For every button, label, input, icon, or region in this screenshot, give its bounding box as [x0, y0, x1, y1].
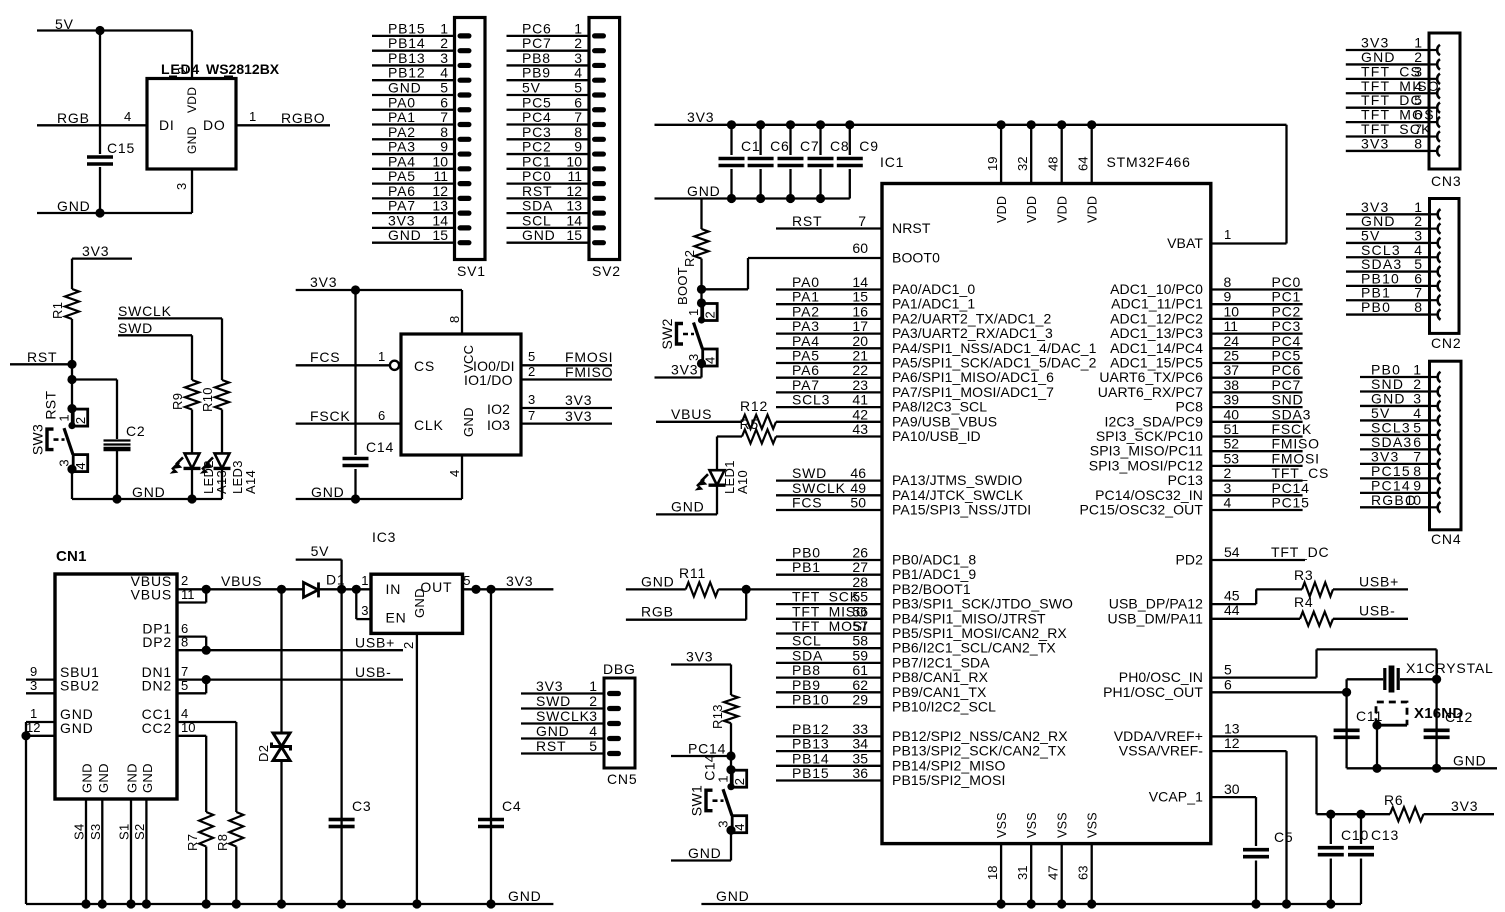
net 3V3 R13 pullup — [686, 649, 713, 665]
svg-text:C6: C6 — [770, 138, 790, 154]
wire PA5 pin 21 — [776, 362, 882, 364]
wire LED2 to GND — [191, 468, 193, 499]
svg-text:2: 2 — [175, 67, 190, 74]
svg-text:SDA3: SDA3 — [1272, 406, 1312, 422]
junction BOOT — [697, 285, 706, 294]
svg-text:8: 8 — [181, 635, 189, 650]
pad SV1 pin 5 — [458, 92, 472, 97]
svg-text:PC5: PC5 — [522, 94, 552, 110]
svg-text:VBAT: VBAT — [1167, 235, 1203, 251]
wire FCS pin 50 — [776, 509, 882, 511]
wire CN4 pin 2 SND — [1360, 390, 1430, 392]
svg-text:SCL: SCL — [522, 212, 552, 228]
wire PC14 pin 3 — [1211, 494, 1303, 496]
svg-text:PC14: PC14 — [688, 741, 726, 757]
pad SV1 pin 7 — [458, 122, 472, 127]
svg-text:14: 14 — [566, 212, 582, 228]
svg-text:1: 1 — [716, 775, 731, 782]
svg-text:PC3: PC3 — [1272, 318, 1302, 334]
wire FSCK to CLK — [296, 422, 401, 424]
net 3V3 label rail — [687, 109, 714, 125]
wire SV2 pin 11 net PC0 — [507, 182, 590, 184]
junction S1/GND — [126, 899, 135, 908]
svg-text:PB15: PB15 — [388, 20, 425, 36]
wire CN2 pin 1 3V3 — [1346, 213, 1430, 215]
svg-text:62: 62 — [852, 677, 868, 693]
svg-text:8: 8 — [1414, 299, 1422, 315]
pad CN5 pin 1 — [607, 691, 621, 696]
pin CN3 1 — [1430, 45, 1440, 55]
svg-text:12: 12 — [1224, 735, 1240, 751]
wire SW1 to GND — [730, 830, 732, 860]
svg-text:5V: 5V — [311, 543, 330, 559]
svg-text:DP2: DP2 — [142, 634, 172, 650]
svg-text:PH0/OSC_IN: PH0/OSC_IN — [1119, 669, 1203, 685]
svg-text:2: 2 — [181, 573, 189, 588]
connector CN1 body — [55, 574, 177, 799]
svg-text:PA2/UART2_TX/ADC1_2: PA2/UART2_TX/ADC1_2 — [892, 310, 1051, 326]
LED LED2 — [172, 453, 201, 472]
svg-text:2: 2 — [574, 35, 582, 51]
svg-text:3V3: 3V3 — [686, 649, 713, 665]
svg-text:ADC1_12/PC2: ADC1_12/PC2 — [1110, 310, 1203, 326]
svg-text:6: 6 — [574, 94, 582, 110]
svg-text:8: 8 — [1224, 274, 1232, 290]
svg-text:VSS: VSS — [1056, 812, 1070, 838]
pin CN3 4 — [1430, 88, 1440, 98]
switch SW2 — [697, 298, 706, 307]
svg-text:S2: S2 — [132, 823, 147, 840]
svg-text:PB4/SPI1_MISO/JTRST: PB4/SPI1_MISO/JTRST — [892, 610, 1046, 626]
resistor R3 USB+ — [1256, 588, 1302, 590]
svg-text:12: 12 — [432, 183, 448, 199]
wire CN4 pin 7 3V3 — [1360, 463, 1430, 465]
pad SV2 pin 13 — [592, 211, 606, 216]
wire GND — [37, 212, 192, 214]
svg-text:3V3: 3V3 — [671, 362, 698, 378]
wire CN3 pin 5 TFT_DC — [1346, 107, 1429, 109]
wire 3V3 SW2 — [655, 376, 702, 378]
pin CN2 4 — [1431, 252, 1441, 262]
wire PA0 pin 14 — [776, 288, 882, 290]
svg-text:USB-: USB- — [355, 664, 392, 680]
svg-text:PA10/USB_ID: PA10/USB_ID — [892, 428, 981, 444]
wire PC3 pin 11 — [1211, 332, 1303, 334]
svg-text:3: 3 — [30, 678, 38, 693]
svg-text:39: 39 — [1224, 392, 1240, 408]
wire CN2 pin 5 SDA3 — [1346, 270, 1430, 272]
wire SV2 pin 10 net PC1 — [507, 168, 590, 170]
net GND label flash — [311, 484, 345, 500]
wire SV2 pin 5 net 5V — [507, 94, 590, 96]
svg-text:GND: GND — [140, 763, 155, 793]
wire crystal GND rail — [1347, 767, 1497, 769]
svg-text:3: 3 — [440, 50, 448, 66]
svg-text:GND: GND — [522, 227, 556, 243]
wire D1 to IC3 — [319, 588, 372, 590]
wire GND rail left — [72, 498, 222, 500]
pad SV1 pin 12 — [458, 196, 472, 201]
svg-text:PB1/ADC1_9: PB1/ADC1_9 — [892, 566, 976, 582]
svg-text:10: 10 — [432, 153, 448, 169]
svg-text:R7: R7 — [185, 834, 200, 851]
svg-text:PA6/SPI1_MISO/ADC1_6: PA6/SPI1_MISO/ADC1_6 — [892, 369, 1054, 385]
svg-text:C8: C8 — [830, 138, 850, 154]
svg-text:5: 5 — [589, 738, 597, 754]
svg-text:SWD: SWD — [792, 465, 827, 481]
svg-text:5: 5 — [528, 349, 536, 364]
capacitor C6 — [748, 157, 774, 161]
svg-text:C4: C4 — [502, 798, 522, 814]
net USB+ label — [355, 635, 395, 651]
svg-text:SV2: SV2 — [592, 263, 621, 279]
svg-text:3: 3 — [361, 603, 369, 618]
svg-text:USB_DP/PA12: USB_DP/PA12 — [1109, 596, 1203, 612]
svg-text:SPI3_SCK/PC10: SPI3_SCK/PC10 — [1096, 428, 1203, 444]
wire CN1 shield S3 — [101, 799, 103, 904]
pin CN4 7 — [1431, 459, 1441, 469]
pin CN2 3 — [1431, 238, 1441, 248]
wire CN2 pin 4 SCL3 — [1346, 256, 1430, 258]
svg-text:PC0: PC0 — [1272, 274, 1302, 290]
pad SV1 pin 9 — [458, 151, 472, 156]
wire IO1 FMISO — [521, 378, 612, 380]
wire PC2 pin 10 — [1211, 318, 1303, 320]
svg-text:56: 56 — [852, 603, 868, 619]
wire NRST / RST — [776, 227, 882, 229]
svg-text:NRST: NRST — [892, 220, 931, 236]
svg-text:35: 35 — [852, 750, 868, 766]
net GND label SW1 — [688, 845, 722, 861]
wire PH1 OSC_OUT pin 6 — [1211, 691, 1347, 693]
svg-text:FMOSI: FMOSI — [1272, 450, 1320, 466]
wire 5V — [37, 29, 192, 31]
svg-text:11: 11 — [567, 168, 582, 184]
flash IC body — [401, 334, 521, 455]
wire CN4 pin 8 PC15 — [1360, 477, 1430, 479]
junction PH1 — [1342, 688, 1351, 697]
svg-text:SWCLK: SWCLK — [792, 480, 846, 496]
resistor R4 USB- — [1300, 612, 1333, 626]
svg-text:2: 2 — [528, 364, 536, 379]
svg-text:34: 34 — [852, 736, 868, 752]
svg-text:13: 13 — [1224, 720, 1240, 736]
wire TFT_CS pin 2 — [1211, 479, 1303, 481]
svg-text:13: 13 — [432, 198, 448, 214]
svg-text:VBUS: VBUS — [131, 587, 172, 603]
svg-text:48: 48 — [1046, 157, 1061, 171]
svg-text:VCAP_1: VCAP_1 — [1149, 789, 1203, 805]
svg-text:14: 14 — [852, 274, 868, 290]
wire pin3 GND stub — [191, 169, 193, 213]
junction cap GND — [756, 194, 765, 203]
capacitor C3 — [329, 818, 355, 829]
pin CN3 6 — [1430, 117, 1440, 127]
wire USB_DP pin 45 jog — [1211, 603, 1256, 605]
capacitor C15 — [87, 155, 113, 159]
svg-text:5: 5 — [181, 678, 189, 693]
svg-text:R6: R6 — [1384, 792, 1404, 808]
capacitor C5 — [1243, 848, 1269, 852]
svg-text:VSS: VSS — [1086, 812, 1100, 838]
wire CN3 pin 7 TFT_SCK — [1346, 135, 1429, 137]
wire CN2 pin 6 PB10 — [1346, 285, 1430, 287]
pad CN5 pin 4 — [607, 736, 621, 741]
wire RGB to DI — [37, 124, 147, 126]
resistor R7 — [199, 812, 213, 847]
svg-text:PC6: PC6 — [522, 20, 552, 36]
wire VDD stub pin 19 — [1000, 125, 1002, 184]
wire R1 to RST node — [71, 319, 73, 409]
pad SV1 pin 2 — [458, 48, 472, 53]
svg-text:GND: GND — [412, 588, 427, 618]
svg-text:FCS: FCS — [310, 349, 340, 365]
wire SV1 pin 1 net PB15 — [372, 35, 455, 37]
capacitor C1 — [719, 157, 745, 161]
svg-text:C14: C14 — [702, 754, 718, 781]
diode D1 — [304, 582, 319, 597]
wire C14 bottom — [354, 469, 356, 499]
svg-text:VBUS: VBUS — [671, 406, 712, 422]
svg-text:I2C3_SDA/PC9: I2C3_SDA/PC9 — [1105, 413, 1204, 429]
svg-text:18: 18 — [985, 866, 1000, 880]
svg-text:CC2: CC2 — [142, 720, 172, 736]
wire RST — [10, 363, 72, 365]
svg-text:RGB: RGB — [57, 110, 90, 126]
svg-text:RST: RST — [43, 391, 59, 420]
svg-text:DBG: DBG — [603, 661, 636, 677]
svg-text:VSS: VSS — [995, 812, 1009, 838]
wire C3 vertical — [340, 589, 342, 904]
inversion bubble pin1 — [390, 361, 399, 370]
svg-text:17: 17 — [852, 318, 868, 334]
resistor R13 — [724, 695, 738, 723]
svg-text:PB14: PB14 — [792, 750, 829, 766]
svg-text:C12: C12 — [1445, 709, 1473, 725]
svg-text:S4: S4 — [72, 823, 87, 840]
svg-text:14: 14 — [432, 212, 448, 228]
svg-text:16: 16 — [852, 303, 868, 319]
net PC14 label — [688, 741, 726, 757]
svg-text:GND: GND — [671, 499, 705, 515]
wire SWCLK — [118, 317, 222, 319]
svg-text:37: 37 — [1224, 362, 1240, 378]
wire SND pin 39 — [1211, 406, 1303, 408]
svg-text:GND: GND — [688, 845, 722, 861]
svg-text:3V3: 3V3 — [536, 678, 563, 694]
connector CN2 body — [1430, 199, 1460, 334]
pin CN4 5 — [1431, 430, 1441, 440]
svg-text:4: 4 — [440, 65, 448, 81]
svg-text:R1: R1 — [50, 302, 65, 319]
wire C8 bottom — [819, 169, 821, 199]
svg-text:PA0/ADC1_0: PA0/ADC1_0 — [892, 281, 975, 297]
svg-text:BOOT0: BOOT0 — [892, 250, 940, 266]
svg-text:64: 64 — [1076, 157, 1091, 171]
wire VSSA pin 12 — [1211, 750, 1287, 752]
svg-text:PB1: PB1 — [792, 559, 821, 575]
pad SV1 pin 6 — [458, 107, 472, 112]
pad SV2 pin 10 — [592, 166, 606, 171]
capacitor C2 polarized — [104, 439, 131, 441]
wire SV1 pin 4 net PB12 — [372, 79, 455, 81]
wire PB2 GND via R11 pin 28 — [626, 588, 686, 590]
junction RGB/PB2 — [742, 585, 751, 594]
svg-text:58: 58 — [852, 633, 868, 649]
svg-text:RST: RST — [792, 213, 822, 229]
svg-text:PC1: PC1 — [1272, 289, 1302, 305]
svg-text:PC2: PC2 — [1272, 303, 1302, 319]
svg-text:2: 2 — [732, 778, 747, 785]
net 3V3 label SW2 — [671, 362, 698, 378]
svg-text:GND: GND — [641, 573, 675, 589]
svg-text:57: 57 — [852, 618, 868, 634]
wire PA1 pin 15 — [776, 303, 882, 305]
svg-text:PA1: PA1 — [792, 289, 820, 305]
svg-text:PB12: PB12 — [388, 65, 425, 81]
svg-text:20: 20 — [852, 333, 868, 349]
svg-text:23: 23 — [852, 377, 868, 393]
svg-text:RST: RST — [27, 349, 57, 365]
wire TFT_DC pin 54 — [1211, 559, 1305, 561]
wire VDD stub pin 64 — [1091, 125, 1093, 184]
pad SV1 pin 8 — [458, 137, 472, 142]
svg-text:61: 61 — [852, 662, 868, 678]
wire SCL pin 58 — [776, 647, 882, 649]
svg-text:4: 4 — [124, 109, 132, 124]
svg-text:PA8/I2C3_SCL: PA8/I2C3_SCL — [892, 399, 987, 415]
crystal X1 — [1385, 666, 1398, 693]
svg-text:VDDA/VREF+: VDDA/VREF+ — [1114, 728, 1203, 744]
pin CN4 4 — [1431, 415, 1441, 425]
wire CN1 GND pin1 — [26, 721, 55, 723]
wire GND SW1 — [671, 859, 731, 861]
wire pin4 GND stub — [461, 455, 463, 499]
svg-text:SDA: SDA — [792, 647, 823, 663]
svg-text:SW2: SW2 — [659, 318, 675, 349]
junction GND/C15 — [95, 208, 104, 217]
pin CN4 6 — [1431, 444, 1441, 454]
svg-text:10: 10 — [181, 720, 195, 735]
svg-text:VDD: VDD — [995, 196, 1009, 223]
op-amp U? WS2812 LED4 body — [147, 79, 236, 170]
wire R8 to GND — [235, 847, 237, 905]
wire SWD — [118, 334, 192, 336]
wire LED1 branch — [716, 437, 718, 471]
pad SV2 pin 14 — [592, 225, 606, 230]
svg-text:3V3: 3V3 — [82, 243, 109, 259]
wire CN3 pin 1 3V3 — [1346, 49, 1429, 51]
wire FMOSI pin 53 — [1211, 465, 1303, 467]
wire CN3 pin 3 TFT_CS — [1346, 78, 1429, 80]
svg-text:6: 6 — [1224, 676, 1232, 692]
wire VDDA pin 13 — [1211, 735, 1317, 737]
svg-text:SWCLK: SWCLK — [118, 303, 172, 319]
svg-text:SCL: SCL — [792, 633, 822, 649]
wire CN5 pin 4 GND — [521, 737, 604, 739]
diode D2 TVS — [277, 585, 286, 594]
svg-text:3V3: 3V3 — [565, 392, 592, 408]
pin CN2 1 — [1431, 209, 1441, 219]
wire C15 bottom — [99, 167, 101, 213]
wire CN4 pin 5 SCL3 — [1360, 434, 1430, 436]
wire VSS stub pin 18 — [1000, 844, 1002, 904]
svg-text:VSS: VSS — [1025, 812, 1039, 838]
pad SV2 pin 2 — [592, 48, 606, 53]
svg-text:54: 54 — [1224, 544, 1240, 560]
wire C14 vertical — [354, 290, 356, 455]
svg-text:1: 1 — [378, 349, 386, 364]
svg-text:1: 1 — [249, 109, 257, 124]
pad SV2 pin 8 — [592, 137, 606, 142]
pin CN4 8 — [1431, 473, 1441, 483]
svg-text:ADC1_13/PC3: ADC1_13/PC3 — [1110, 325, 1203, 341]
svg-text:6: 6 — [378, 408, 386, 423]
wire R10 to LED3 — [221, 410, 223, 454]
svg-text:24: 24 — [1224, 333, 1240, 349]
wire CN5 pin 5 RST — [521, 752, 604, 754]
wire PC4 pin 24 — [1211, 347, 1303, 349]
junction GND pin12 — [21, 731, 30, 740]
svg-text:VDD: VDD — [1056, 196, 1070, 223]
wire FSCK pin 51 — [1211, 435, 1303, 437]
wire SV1 pin 12 net PA6 — [372, 197, 455, 199]
wire SV2 pin 15 net GND — [507, 242, 590, 244]
svg-text:UART6_TX/PC6: UART6_TX/PC6 — [1099, 369, 1203, 385]
svg-text:PA4/SPI1_NSS/ADC1_4/DAC_1: PA4/SPI1_NSS/ADC1_4/DAC_1 — [892, 340, 1097, 356]
wire CN4 pin 10 RGBO — [1360, 506, 1430, 508]
wire IO2 3V3 — [521, 407, 612, 409]
svg-text:PA13/JTMS_SWDIO: PA13/JTMS_SWDIO — [892, 472, 1022, 488]
svg-text:FMISO: FMISO — [1272, 436, 1320, 452]
wire SV2 pin 7 net PC4 — [507, 123, 590, 125]
wire CN4 pin 4 5V — [1360, 419, 1430, 421]
wire SWD pin 46 — [776, 479, 882, 481]
wire C4 vertical — [490, 589, 492, 904]
svg-text:ADC1_10/PC0: ADC1_10/PC0 — [1110, 281, 1203, 297]
svg-text:PB2/BOOT1: PB2/BOOT1 — [892, 581, 971, 597]
svg-text:PC7: PC7 — [1272, 377, 1302, 393]
wire C1 bottom — [730, 169, 732, 199]
svg-text:5V: 5V — [522, 79, 541, 95]
svg-text:DO: DO — [203, 117, 226, 133]
svg-text:PB6/I2C1_SCL/CAN2_TX: PB6/I2C1_SCL/CAN2_TX — [892, 640, 1056, 656]
pin CN4 10 — [1431, 502, 1441, 512]
switch SW1 — [726, 765, 735, 774]
svg-text:SWD: SWD — [118, 320, 153, 336]
wire CN1 shield S2 — [145, 799, 147, 904]
pad SV1 pin 3 — [458, 63, 472, 68]
svg-text:PB15: PB15 — [792, 765, 829, 781]
capacitor C11 — [1334, 728, 1360, 732]
wire SV1 pin 7 net PA1 — [372, 123, 455, 125]
LED LED1 — [697, 470, 726, 489]
pad SV1 pin 14 — [458, 225, 472, 230]
wire SV1 pin 15 net GND — [372, 242, 455, 244]
svg-text:8: 8 — [447, 316, 462, 323]
net FSCK label — [310, 408, 351, 424]
svg-text:C10: C10 — [1341, 827, 1369, 843]
net SWCLK label — [118, 303, 172, 319]
svg-text:15: 15 — [566, 227, 582, 243]
wire CN1 DN2 pin5 — [177, 692, 206, 694]
junction LED2/GND — [187, 494, 196, 503]
wire to C2 — [72, 378, 117, 380]
svg-text:3V3: 3V3 — [687, 109, 714, 125]
pad SV2 pin 4 — [592, 78, 606, 83]
svg-text:60: 60 — [852, 240, 868, 256]
svg-text:29: 29 — [852, 692, 868, 708]
